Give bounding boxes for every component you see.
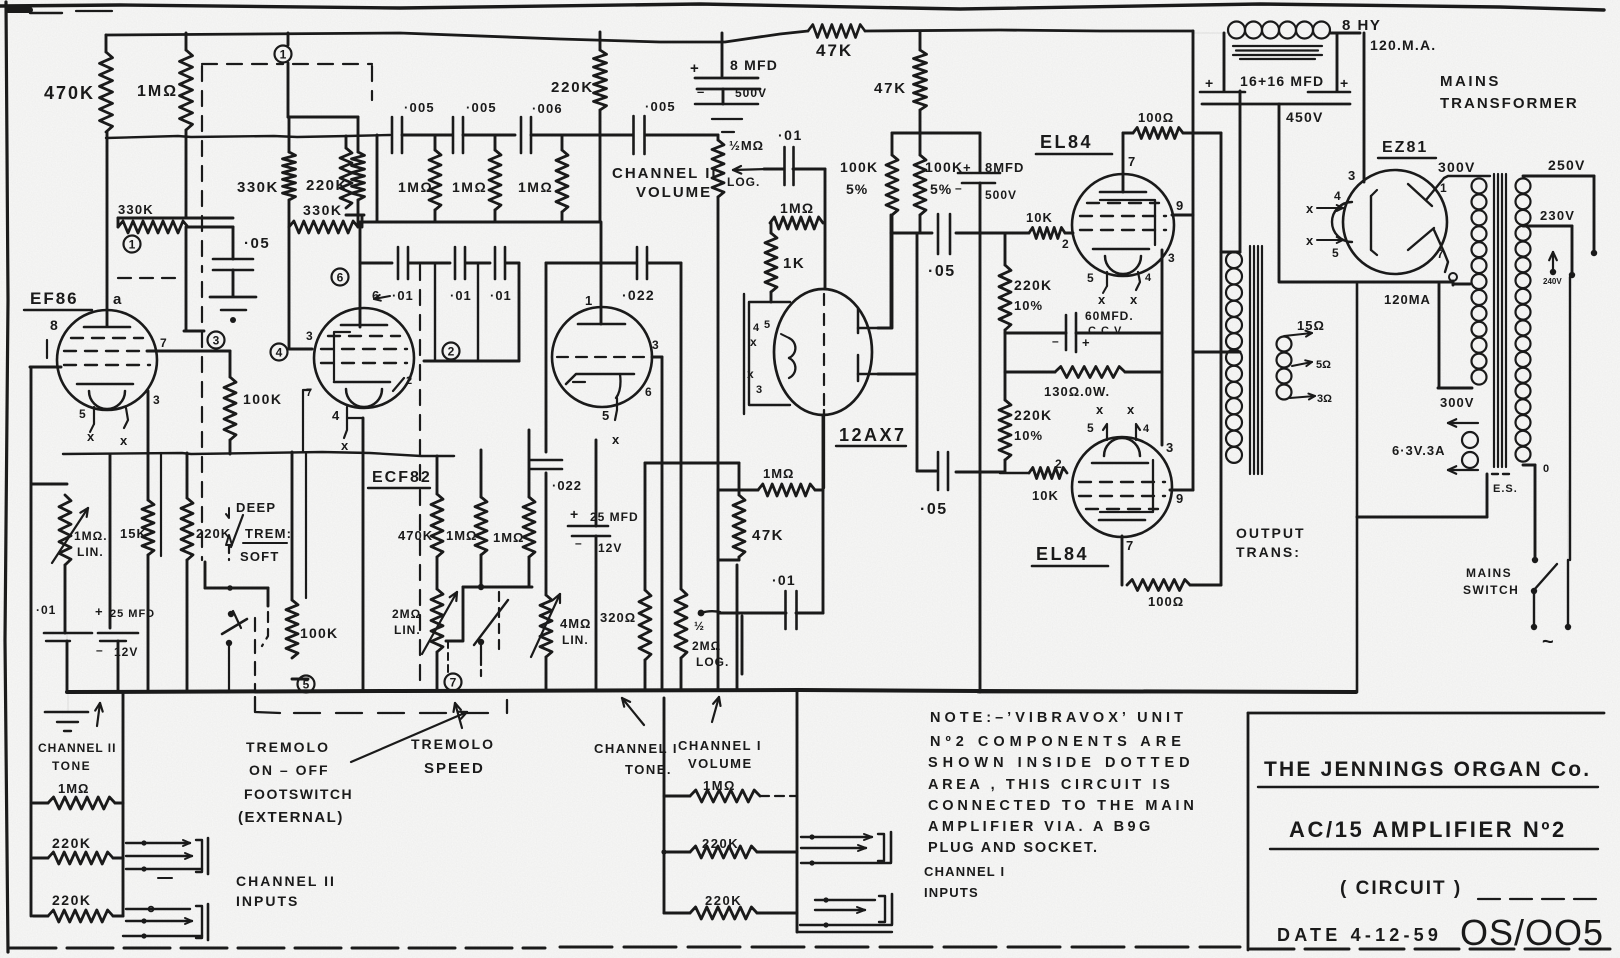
svg-text:VOLUME: VOLUME — [636, 184, 712, 201]
wire — [188, 226, 233, 229]
wire — [648, 262, 681, 265]
svg-text:·005: ·005 — [466, 100, 497, 115]
svg-text:MAINS: MAINS — [1440, 73, 1501, 90]
svg-text:450V: 450V — [1286, 109, 1324, 125]
switch (tremolo on-off contact 1) — [227, 585, 233, 591]
wire — [409, 262, 450, 265]
tube ECF82 V2 — [314, 308, 414, 408]
wire primary bottom — [1523, 464, 1535, 467]
EF86 pin 5 heater — [93, 407, 95, 424]
V6 screen wire pin 9 — [1170, 489, 1193, 492]
svg-text:LIN.: LIN. — [562, 633, 589, 647]
resistor 1M R16 (horizontal) — [758, 484, 815, 496]
svg-text:LIN.: LIN. — [77, 545, 104, 559]
wire — [66, 633, 68, 641]
wire 1M rail to node — [185, 227, 188, 331]
svg-text:CHANNEL I: CHANNEL I — [924, 864, 1005, 879]
svg-text:CHANNEL I: CHANNEL I — [678, 738, 762, 753]
svg-text:·022: ·022 — [552, 478, 582, 493]
resistor 220K 10% R35 — [1004, 233, 1007, 265]
grid box (left section) — [749, 302, 790, 405]
tie point 3 — [208, 332, 225, 349]
resistor 220K R10 — [599, 32, 602, 50]
svg-text:LOG.: LOG. — [696, 655, 729, 669]
EZ81 plate 1 — [1408, 184, 1432, 206]
svg-text:·005: ·005 — [404, 100, 435, 115]
svg-text:EL84: EL84 — [1040, 132, 1093, 152]
resistor 320 R14 — [644, 463, 647, 590]
svg-text:7: 7 — [160, 336, 167, 350]
svg-text:AREA , THIS CIRCUIT IS: AREA , THIS CIRCUIT IS — [928, 777, 1173, 793]
wire grid network H y218 — [118, 217, 233, 220]
arrow channel I tone — [622, 698, 644, 725]
svg-text:5%: 5% — [846, 181, 868, 197]
svg-text:3: 3 — [153, 393, 160, 407]
wire — [793, 168, 825, 171]
svg-text:16+16 MFD: 16+16 MFD — [1240, 73, 1324, 89]
svg-text:+: + — [1340, 75, 1348, 91]
voltage selector arrow — [1552, 252, 1554, 272]
wire 250V — [1523, 175, 1594, 178]
svg-text:2: 2 — [1055, 457, 1062, 471]
svg-text:1MΩ: 1MΩ — [398, 179, 433, 195]
svg-text:47K: 47K — [752, 527, 784, 544]
svg-text:SOFT: SOFT — [240, 549, 279, 564]
svg-text:CHANNEL II: CHANNEL II — [38, 741, 116, 755]
svg-text:DEEP: DEEP — [236, 500, 276, 515]
terminal O — [1449, 273, 1457, 281]
V4 grid bracket — [857, 355, 860, 381]
output tap coil — [1277, 337, 1292, 352]
svg-text:TRANS:: TRANS: — [1236, 544, 1301, 560]
svg-text:500V: 500V — [985, 188, 1017, 202]
svg-text:7: 7 — [450, 676, 457, 690]
svg-text:1MΩ: 1MΩ — [780, 200, 814, 216]
capacitor .022 C14 (ch I tone) — [530, 459, 562, 462]
pin 7 wire ECF82 — [303, 390, 310, 452]
jack (channel II input 1) — [126, 842, 190, 844]
wire EF86 left to rail — [30, 366, 61, 369]
wire — [109, 455, 112, 628]
svg-text:x: x — [612, 432, 620, 447]
wire plate 1 to HT winding — [1426, 176, 1490, 200]
svg-text:·01: ·01 — [36, 603, 56, 617]
svg-text:x: x — [1096, 402, 1104, 417]
svg-text:220K: 220K — [52, 892, 91, 908]
svg-text:·05: ·05 — [920, 501, 948, 518]
resistor 47K R30 — [919, 31, 922, 50]
svg-text:+: + — [1082, 335, 1090, 350]
resistor 100K R13 — [229, 351, 232, 377]
wire — [645, 134, 718, 137]
svg-text:x: x — [747, 367, 754, 381]
svg-text:x: x — [1098, 292, 1106, 307]
svg-text:4: 4 — [1334, 189, 1341, 203]
wire — [770, 292, 773, 302]
V6 anode wire — [1121, 536, 1124, 585]
svg-text:320Ω: 320Ω — [600, 610, 636, 625]
svg-text:1MΩ: 1MΩ — [446, 528, 477, 543]
V3 grid row — [557, 356, 648, 358]
wire — [546, 262, 636, 265]
capacitor .005 C7 (ch II volume) — [632, 116, 635, 154]
svg-text:·01: ·01 — [772, 572, 796, 588]
svg-text:( CIRCUIT ): ( CIRCUIT ) — [1340, 878, 1462, 899]
svg-text:OS/OO5: OS/OO5 — [1460, 912, 1604, 953]
wire B+ branch — [1280, 281, 1453, 284]
svg-text:5: 5 — [79, 407, 86, 421]
wire — [402, 134, 452, 137]
svg-text:240V: 240V — [1543, 277, 1562, 286]
wire HT bus right — [865, 30, 1193, 31]
svg-text:1MΩ: 1MΩ — [137, 83, 178, 100]
svg-text:5%: 5% — [930, 181, 952, 197]
svg-text:1: 1 — [1440, 181, 1447, 195]
resistor 330K R5 (horizontal) — [288, 200, 291, 227]
svg-text:10K: 10K — [1026, 210, 1053, 225]
svg-text:INPUTS: INPUTS — [924, 885, 979, 900]
svg-text:Nº2 COMPONENTS ARE: Nº2 COMPONENTS ARE — [930, 734, 1186, 750]
svg-text:·005: ·005 — [645, 99, 676, 114]
svg-text:5: 5 — [602, 408, 609, 423]
wire — [1004, 330, 1007, 400]
svg-text:NOTE:–’VIBRAVOX’ UNIT: NOTE:–’VIBRAVOX’ UNIT — [930, 710, 1187, 726]
svg-text:1MΩ.: 1MΩ. — [74, 529, 108, 543]
svg-text:47K: 47K — [874, 80, 907, 97]
svg-text:TREM:: TREM: — [245, 526, 292, 541]
resistor 1M R7 — [434, 135, 437, 150]
V6 grid resistor 10K R38 — [1000, 472, 1029, 475]
svg-text:5: 5 — [1087, 271, 1094, 285]
svg-text:OUTPUT: OUTPUT — [1236, 525, 1306, 541]
resistor 1M R6 — [345, 136, 348, 148]
svg-text:4: 4 — [1145, 272, 1152, 284]
capacitor .01 C8 — [783, 147, 786, 185]
svg-text:9: 9 — [1176, 491, 1183, 506]
svg-text:60MFD.: 60MFD. — [1085, 309, 1134, 323]
EZ81 plate 7 — [1408, 228, 1434, 250]
wire anode rail to OT — [1190, 584, 1221, 587]
svg-text:CHANNEL II: CHANNEL II — [612, 165, 718, 182]
dashed boundary (vibravox area) top — [202, 63, 283, 65]
tie point 4 / grid wire — [271, 344, 288, 361]
wire — [595, 440, 598, 526]
wire switch feed — [228, 545, 230, 560]
svg-text:8: 8 — [50, 317, 58, 333]
svg-text:CONNECTED TO THE MAIN: CONNECTED TO THE MAIN — [928, 798, 1198, 814]
svg-text:3: 3 — [1166, 440, 1173, 455]
EZ81 pin 4 heater — [1317, 207, 1343, 209]
wiper arrow (ch II volume) — [733, 169, 766, 170]
wire — [229, 440, 232, 454]
svg-text:5: 5 — [1087, 421, 1094, 435]
svg-text:12V: 12V — [598, 541, 622, 555]
svg-text:AC/15 AMPLIFIER Nº2: AC/15 AMPLIFIER Nº2 — [1289, 817, 1567, 842]
svg-text:3: 3 — [306, 329, 313, 343]
svg-text:250V: 250V — [1548, 157, 1586, 173]
svg-text:5: 5 — [1332, 246, 1339, 260]
svg-text:·01: ·01 — [392, 288, 414, 303]
svg-text:220K: 220K — [1014, 407, 1052, 423]
wire — [545, 473, 548, 595]
resistor 1M R22 — [528, 430, 531, 497]
wire — [506, 262, 519, 265]
svg-text:EZ81: EZ81 — [1382, 139, 1428, 156]
svg-text:6: 6 — [645, 385, 652, 399]
tube V3 (triode) — [552, 307, 652, 407]
svg-text:1: 1 — [280, 48, 287, 62]
svg-text:100K: 100K — [840, 159, 878, 175]
svg-text:220K: 220K — [705, 893, 742, 908]
svg-text:–: – — [955, 181, 962, 195]
wire right rail (ch II jacks) — [122, 693, 125, 916]
svg-text:·01: ·01 — [450, 288, 472, 303]
jack (channel II input 2) — [126, 908, 190, 910]
svg-text:VOLUME: VOLUME — [688, 756, 753, 771]
V4 anode wire up — [878, 327, 891, 330]
wire — [531, 134, 633, 137]
resistor 1M R8 — [494, 135, 497, 150]
capacitor .01 C15 — [784, 591, 787, 629]
wire ECF82 anode — [359, 222, 362, 327]
mains core — [1493, 174, 1495, 467]
svg-text:SWITCH: SWITCH — [1463, 583, 1519, 597]
svg-text:10%: 10% — [1014, 298, 1043, 313]
tie point 5 — [305, 453, 307, 598]
tap wires — [1284, 333, 1312, 336]
svg-text:E.S.: E.S. — [1493, 483, 1518, 495]
wire — [645, 462, 739, 465]
resistor 15K R17 — [147, 454, 150, 500]
svg-text:3: 3 — [756, 384, 762, 396]
svg-text:·022: ·022 — [622, 287, 655, 303]
sheet border left — [5, 2, 8, 952]
svg-text:TONE: TONE — [52, 759, 91, 773]
svg-text:330K: 330K — [237, 179, 279, 196]
svg-text:230V: 230V — [1540, 208, 1575, 223]
svg-text:1MΩ: 1MΩ — [58, 781, 89, 796]
wire pair below 47K — [736, 565, 739, 690]
svg-text:1MΩ: 1MΩ — [518, 179, 553, 195]
wire — [919, 215, 922, 233]
ground (channel II tone) — [67, 692, 69, 711]
capacitor .05 C19 — [891, 232, 932, 235]
svg-text:x: x — [1127, 402, 1135, 417]
svg-text:FOOTSWITCH: FOOTSWITCH — [244, 786, 353, 802]
wire 230V tap — [1523, 225, 1572, 228]
capacitor .006 C6 — [520, 117, 523, 153]
V3 grid wire down — [652, 356, 662, 359]
wire 1M rail down — [185, 130, 188, 218]
wire HT bus — [106, 31, 808, 42]
svg-text:–: – — [697, 84, 704, 99]
capacitor .05 C20 — [917, 470, 936, 473]
svg-text:EF86: EF86 — [30, 289, 79, 308]
svg-text:LOG.: LOG. — [727, 175, 760, 189]
anode arrow mark — [374, 296, 390, 299]
tie point 7 — [445, 674, 462, 691]
resistor 1K R12 — [770, 223, 773, 233]
V5 anode wire — [1122, 133, 1125, 192]
potentiometer 4M LIN (ch I tone) — [540, 595, 552, 657]
potentiometer 1M LIN (tremolo depth) — [32, 483, 67, 486]
resistor 130R R36 (horizontal) — [1005, 371, 1055, 374]
output transformer core — [1249, 246, 1251, 474]
box right rail — [1356, 284, 1359, 692]
wire screen tap — [1193, 351, 1240, 354]
svg-text:130Ω.0W.: 130Ω.0W. — [1044, 384, 1110, 399]
capacitor .05 C3 — [232, 227, 235, 259]
wire down + tie 2 — [434, 263, 436, 361]
svg-text:6·3V.3A: 6·3V.3A — [1392, 443, 1446, 458]
svg-text:x: x — [1306, 201, 1314, 216]
svg-text:3: 3 — [213, 334, 220, 348]
arrow ch I volume — [712, 697, 719, 722]
svg-text:1K: 1K — [783, 255, 805, 272]
wire / connector box left edge — [979, 183, 982, 692]
capacitor .005 C5 — [452, 117, 455, 153]
svg-text:15Ω: 15Ω — [1297, 318, 1325, 333]
primary winding (right) — [1516, 178, 1531, 193]
svg-text:120.M.A.: 120.M.A. — [1370, 37, 1436, 53]
resistor 100K R19 — [291, 452, 294, 600]
resistor 1M R11 (horizontal) — [770, 217, 823, 229]
wire screen to chassis — [1486, 474, 1489, 517]
svg-text:47K: 47K — [816, 41, 853, 60]
resistor 1M R21 — [480, 450, 483, 497]
wire — [466, 262, 490, 265]
svg-text:4: 4 — [276, 346, 283, 360]
wire 0 terminal down — [1452, 281, 1455, 285]
output transformer primary coil — [1226, 252, 1242, 268]
svg-text:LIN.: LIN. — [394, 623, 421, 637]
svg-text:x: x — [87, 429, 95, 444]
wire — [421, 455, 456, 457]
wire — [376, 135, 379, 222]
svg-text:2MΩ: 2MΩ — [692, 639, 721, 653]
potentiometer 2M LIN (tremolo speed) — [436, 557, 439, 589]
svg-text:6: 6 — [337, 271, 344, 285]
svg-text:7: 7 — [1126, 538, 1133, 553]
svg-text:SPEED: SPEED — [424, 760, 485, 777]
svg-text:3: 3 — [652, 338, 659, 352]
svg-text:5: 5 — [764, 319, 770, 331]
resistor 1M R9 — [561, 135, 564, 150]
wire screen rail — [1192, 31, 1195, 490]
svg-text:0: 0 — [1543, 463, 1549, 475]
wire — [796, 612, 823, 615]
svg-text:2: 2 — [1062, 237, 1069, 251]
svg-text:470K: 470K — [44, 83, 95, 103]
svg-text:TREMOLO: TREMOLO — [246, 739, 330, 755]
svg-text:10K: 10K — [1032, 488, 1059, 503]
wire 1M bottom bus — [434, 210, 437, 222]
ECF82 pin 4 heater — [347, 407, 363, 418]
svg-text:PLUG AND SOCKET.: PLUG AND SOCKET. — [928, 840, 1099, 856]
svg-text:4: 4 — [1143, 423, 1150, 435]
resistor 100 R39 (horizontal) — [1127, 580, 1190, 591]
resistor 100 R33 (horizontal) — [1123, 132, 1133, 135]
tie point (grid node) — [124, 236, 141, 253]
tube EF86 V1 — [57, 310, 157, 410]
resistor 220K R18 — [186, 453, 189, 498]
resistor 220K 10% R37 — [999, 400, 1011, 460]
svg-text:300V: 300V — [1438, 159, 1476, 175]
V4 grid wire — [878, 373, 917, 376]
dashed footswitch wire below bus — [255, 697, 280, 713]
svg-text:8 HY: 8 HY — [1342, 17, 1381, 34]
tie point 1 — [287, 33, 290, 45]
svg-text:100K: 100K — [300, 625, 338, 641]
tube EL84 V6 (lower) — [1072, 437, 1172, 537]
svg-text:AMPLIFIER VIA. A B9G: AMPLIFIER VIA. A B9G — [928, 819, 1154, 835]
svg-text:x: x — [750, 335, 757, 349]
V3 cathode — [566, 374, 634, 384]
tube 12AX7 V4 — [774, 289, 872, 415]
capacitor .005 C4 — [391, 117, 394, 153]
svg-text:–: – — [96, 643, 103, 657]
svg-text:120MA: 120MA — [1384, 292, 1431, 307]
wire — [891, 215, 894, 328]
svg-text:12AX7: 12AX7 — [839, 425, 907, 445]
wire 450V down — [1278, 104, 1281, 282]
wire selector down — [1569, 277, 1571, 560]
electrostatic screen — [1492, 473, 1512, 475]
svg-text:+: + — [690, 60, 699, 77]
tie point 6 — [332, 269, 349, 286]
svg-text:½: ½ — [694, 619, 704, 633]
EZ81 pin 5 heater — [1317, 239, 1343, 241]
svg-text:MAINS: MAINS — [1466, 566, 1512, 580]
jack (channel I input 1) — [801, 836, 872, 838]
resistor 470K R1 — [105, 35, 108, 52]
wire anode to OT — [1183, 132, 1221, 135]
title block frame — [1248, 712, 1604, 715]
svg-text:CHANNEL II: CHANNEL II — [236, 873, 336, 889]
wire — [599, 110, 602, 222]
EF86 pin 8 stub — [46, 340, 48, 358]
svg-text:2MΩ: 2MΩ — [392, 607, 421, 621]
svg-text:+: + — [570, 506, 578, 522]
wire HT centre tap — [1453, 283, 1470, 286]
resistor 330K R3 — [288, 117, 291, 152]
svg-text:4: 4 — [753, 322, 760, 334]
wire cathode feed 450V — [1363, 33, 1366, 182]
svg-text:TREMOLO: TREMOLO — [411, 736, 495, 752]
svg-text:470K: 470K — [398, 528, 433, 543]
svg-text:300V: 300V — [1440, 395, 1474, 410]
wire — [956, 471, 1005, 474]
wire 120MA — [1438, 284, 1441, 388]
V5 screen wire pin 9 — [1172, 214, 1193, 217]
svg-text:10%: 10% — [1014, 428, 1043, 443]
svg-text:+: + — [95, 604, 103, 619]
svg-text:100K: 100K — [243, 391, 282, 407]
svg-text:100Ω: 100Ω — [1138, 110, 1174, 125]
svg-text:330K: 330K — [303, 202, 342, 218]
wire — [360, 262, 392, 265]
svg-text:15K: 15K — [120, 526, 147, 541]
V3 anode feed — [600, 222, 603, 324]
resistor 100K 5% R31 — [891, 133, 894, 155]
svg-text:3Ω: 3Ω — [1317, 393, 1332, 405]
wiper wire ch I volume — [698, 610, 705, 617]
svg-text:500V: 500V — [735, 86, 767, 100]
svg-text:4MΩ: 4MΩ — [560, 616, 591, 631]
sheet border bottom (dashed) — [10, 947, 545, 950]
capacitor 16+16MFD C23 — [1223, 33, 1226, 91]
svg-text:1MΩ: 1MΩ — [452, 179, 487, 195]
